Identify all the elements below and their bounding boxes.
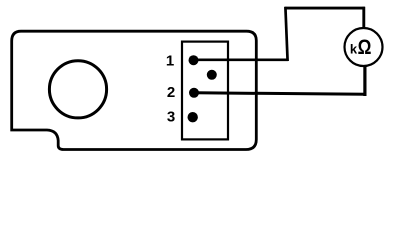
component body outline	[12, 31, 257, 149]
pin 2 dot	[189, 88, 199, 98]
pin 1 dot	[189, 55, 199, 65]
svg-text:k: k	[350, 42, 358, 57]
wire riser up	[285, 7, 287, 61]
svg-text:3: 3	[167, 109, 175, 126]
svg-text:2: 2	[167, 84, 175, 101]
pin 3 dot	[188, 112, 198, 122]
wire meter top drop	[362, 7, 365, 30]
connector rectangle	[182, 42, 228, 140]
wire pin2 horizontal	[196, 93, 366, 95]
wire pin1 to riser	[196, 58, 288, 61]
wire meter bottom drop	[363, 64, 366, 96]
svg-text:Ω: Ω	[358, 37, 372, 60]
wire top horizontal	[284, 7, 365, 10]
svg-text:1: 1	[166, 53, 174, 70]
body circle opening	[49, 61, 106, 118]
unused terminal dot	[207, 70, 217, 80]
ohmmeter U1 circle	[345, 28, 383, 66]
